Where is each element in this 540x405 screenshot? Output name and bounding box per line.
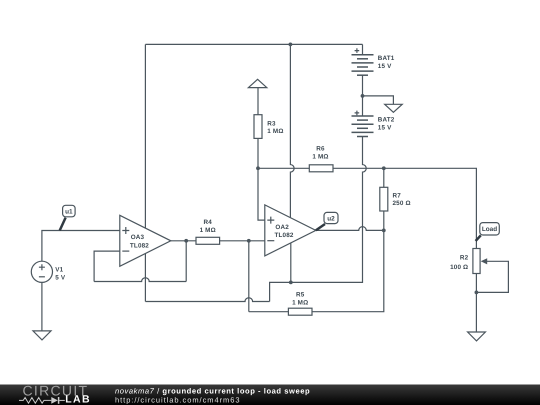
svg-text:R6: R6 bbox=[316, 145, 325, 152]
svg-text:R4: R4 bbox=[203, 219, 212, 226]
svg-text:R2: R2 bbox=[460, 254, 469, 261]
svg-text:BAT2: BAT2 bbox=[378, 116, 395, 123]
svg-text:BAT1: BAT1 bbox=[378, 55, 395, 62]
svg-text:R5: R5 bbox=[296, 292, 305, 299]
svg-text:1 MΩ: 1 MΩ bbox=[312, 153, 328, 160]
svg-text:5 V: 5 V bbox=[55, 274, 66, 281]
svg-text:Load: Load bbox=[482, 226, 497, 233]
svg-text:V1: V1 bbox=[55, 267, 63, 274]
svg-text:TL082: TL082 bbox=[130, 243, 149, 250]
svg-text:R3: R3 bbox=[267, 120, 276, 127]
svg-text:1 MΩ: 1 MΩ bbox=[267, 128, 283, 135]
svg-text:1 MΩ: 1 MΩ bbox=[292, 299, 308, 306]
svg-text:1 MΩ: 1 MΩ bbox=[200, 227, 216, 234]
svg-text:100 Ω: 100 Ω bbox=[450, 264, 468, 271]
svg-text:http://circuitlab.com/cm4rm63: http://circuitlab.com/cm4rm63 bbox=[115, 396, 241, 405]
svg-text:R7: R7 bbox=[393, 192, 402, 199]
svg-text:novakma7 / grounded current lo: novakma7 / grounded current loop - load … bbox=[115, 387, 310, 396]
svg-text:15 V: 15 V bbox=[378, 124, 392, 131]
svg-text:LAB: LAB bbox=[65, 393, 91, 405]
svg-text:OA2: OA2 bbox=[275, 224, 289, 231]
svg-text:OA3: OA3 bbox=[131, 234, 145, 241]
svg-text:TL082: TL082 bbox=[275, 232, 294, 239]
svg-text:250 Ω: 250 Ω bbox=[393, 200, 411, 207]
svg-text:u1: u1 bbox=[65, 208, 73, 215]
svg-text:15 V: 15 V bbox=[378, 63, 392, 70]
svg-text:u2: u2 bbox=[327, 215, 335, 222]
